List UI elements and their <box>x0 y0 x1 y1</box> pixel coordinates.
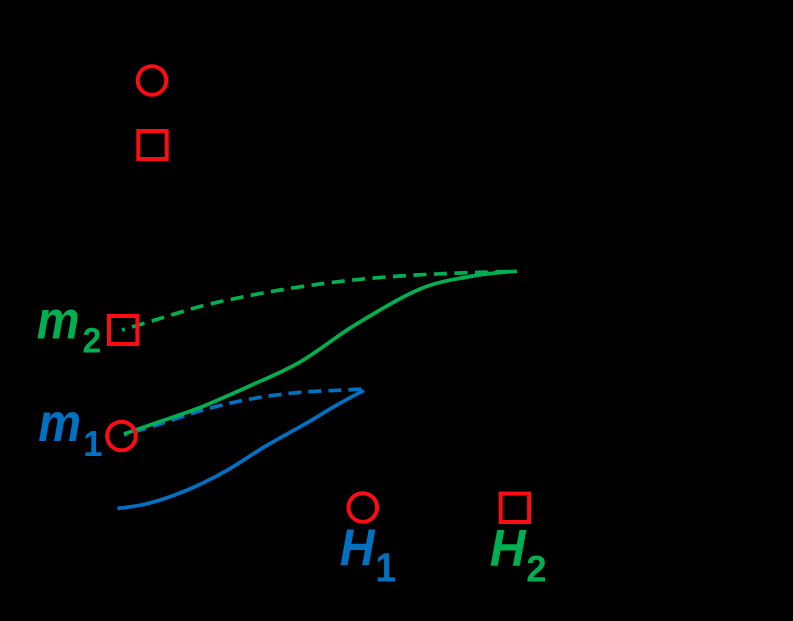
svg-text:1: 1 <box>375 546 396 591</box>
svg-text:1: 1 <box>83 423 102 464</box>
red circle marker at m1 <box>107 422 136 451</box>
svg-text:2: 2 <box>526 549 546 590</box>
green dashed curve from m2 <box>122 271 516 330</box>
svg-text:H: H <box>340 519 376 577</box>
red square marker above H2 <box>501 494 529 522</box>
legend circle marker <box>138 66 167 95</box>
red square marker at m2 <box>109 316 137 344</box>
svg-text:2: 2 <box>83 322 102 361</box>
legend square marker <box>138 131 166 159</box>
blue solid curve <box>118 391 365 509</box>
svg-text:H: H <box>490 519 527 577</box>
red circle marker above H1 <box>349 493 378 522</box>
green solid curve m1 to merge point <box>124 271 517 434</box>
svg-text:m: m <box>38 393 81 453</box>
svg-text:m: m <box>37 290 80 350</box>
blue dashed curve from m1 <box>124 389 364 435</box>
